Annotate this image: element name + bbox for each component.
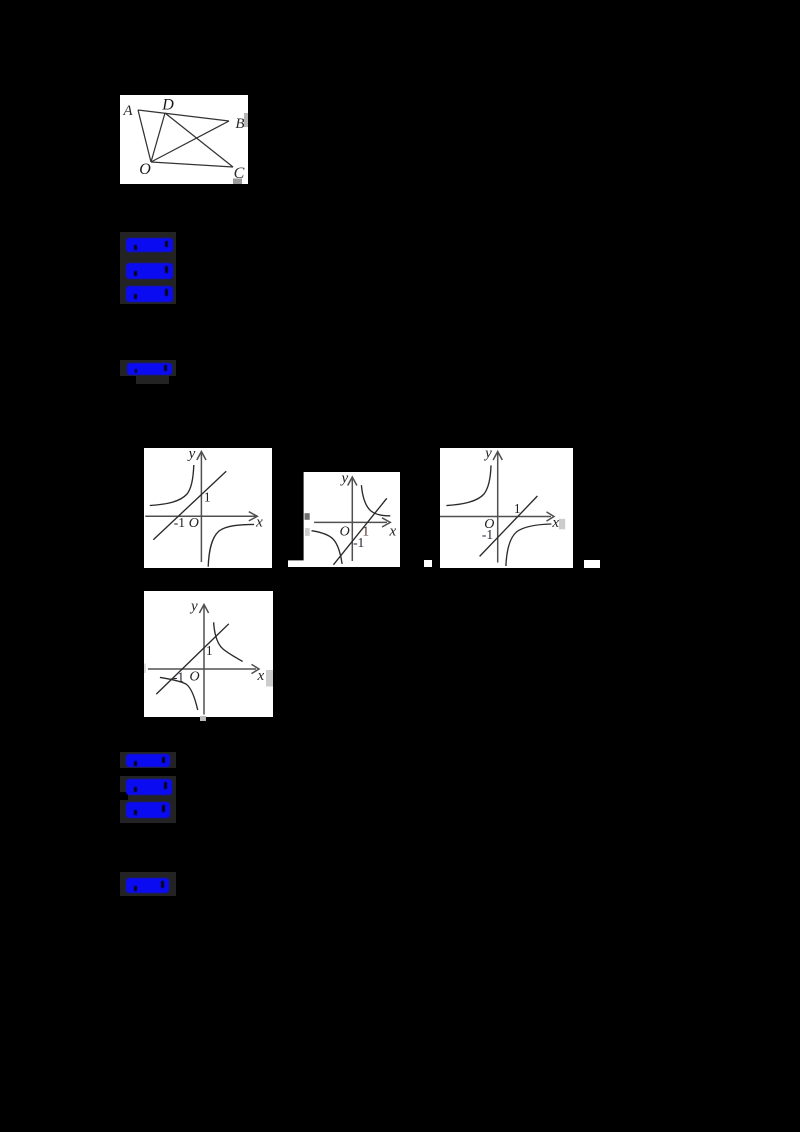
artifact below D y-axis xyxy=(200,716,206,721)
hyperbola Q2 branch xyxy=(446,465,491,505)
svg-text:O: O xyxy=(189,516,199,531)
hyperbola Q1 branch xyxy=(214,622,243,661)
artifact light square xyxy=(559,519,565,530)
x axis xyxy=(314,521,387,523)
graph option A box xyxy=(144,448,272,568)
hyperbola Q4 branch xyxy=(506,524,552,566)
line y=x+1 xyxy=(156,624,229,694)
artifact below C xyxy=(233,179,242,185)
svg-text:x: x xyxy=(551,515,559,531)
svg-text:O: O xyxy=(340,524,350,539)
blue label 3 xyxy=(126,286,173,302)
blue label 6 xyxy=(126,779,172,795)
hyperbola Q3 branch xyxy=(312,530,343,563)
svg-text:A: A xyxy=(122,103,133,119)
answer label group 2 xyxy=(120,752,176,768)
svg-text:x: x xyxy=(256,668,264,684)
blue label 5 xyxy=(126,754,170,767)
svg-text:O: O xyxy=(189,670,199,685)
geometry figure box (quadrilateral OABC with point D) xyxy=(120,95,248,184)
hyperbola Q2 branch xyxy=(150,465,194,506)
line y=x+1 xyxy=(153,471,226,539)
svg-text:O: O xyxy=(139,161,151,178)
svg-text:x: x xyxy=(389,523,397,539)
y axis xyxy=(497,452,499,563)
line y=x-1 xyxy=(480,496,538,556)
svg-text:y: y xyxy=(187,448,196,462)
artifact right edge xyxy=(266,670,273,687)
option D letter fragment xyxy=(584,560,600,568)
svg-text:y: y xyxy=(339,472,348,486)
wire O-B xyxy=(151,121,229,162)
graph option D box xyxy=(144,591,273,717)
wire A-B xyxy=(138,110,229,121)
svg-text:-1: -1 xyxy=(482,527,493,542)
wire O-C xyxy=(151,162,233,167)
line y=x-1 xyxy=(333,498,386,564)
wire D-C xyxy=(165,113,233,167)
wire A-O xyxy=(138,110,151,162)
svg-text:-1: -1 xyxy=(174,515,185,530)
graph option C box xyxy=(440,448,573,568)
x axis xyxy=(148,668,256,670)
blue label 1 xyxy=(126,238,173,252)
svg-text:D: D xyxy=(161,97,174,114)
hyperbola Q4 branch xyxy=(208,524,254,566)
artifact left edge xyxy=(144,664,146,673)
option C letter fragment xyxy=(424,560,432,567)
y axis xyxy=(200,452,202,562)
blue label 2 xyxy=(126,263,173,279)
x axis xyxy=(440,516,551,518)
y axis xyxy=(203,605,205,715)
svg-text:x: x xyxy=(255,515,263,531)
svg-text:y: y xyxy=(483,448,492,462)
artifact light square xyxy=(305,528,310,536)
hyperbola Q3 branch xyxy=(160,677,198,710)
blue label 8 xyxy=(126,878,169,893)
svg-text:y: y xyxy=(189,599,198,615)
wire D-O xyxy=(151,113,165,162)
artifact dark square xyxy=(305,513,310,520)
answer label 4 background xyxy=(120,360,176,376)
answer label group 1 background xyxy=(120,232,176,304)
graph option B box xyxy=(288,472,400,567)
blue label 7 xyxy=(126,802,170,818)
blue label 4 xyxy=(127,363,172,375)
svg-text:B: B xyxy=(235,116,244,132)
hyperbola Q1 branch xyxy=(361,485,390,516)
y axis xyxy=(351,477,353,560)
x axis xyxy=(145,515,256,517)
artifact right of B xyxy=(244,113,248,127)
